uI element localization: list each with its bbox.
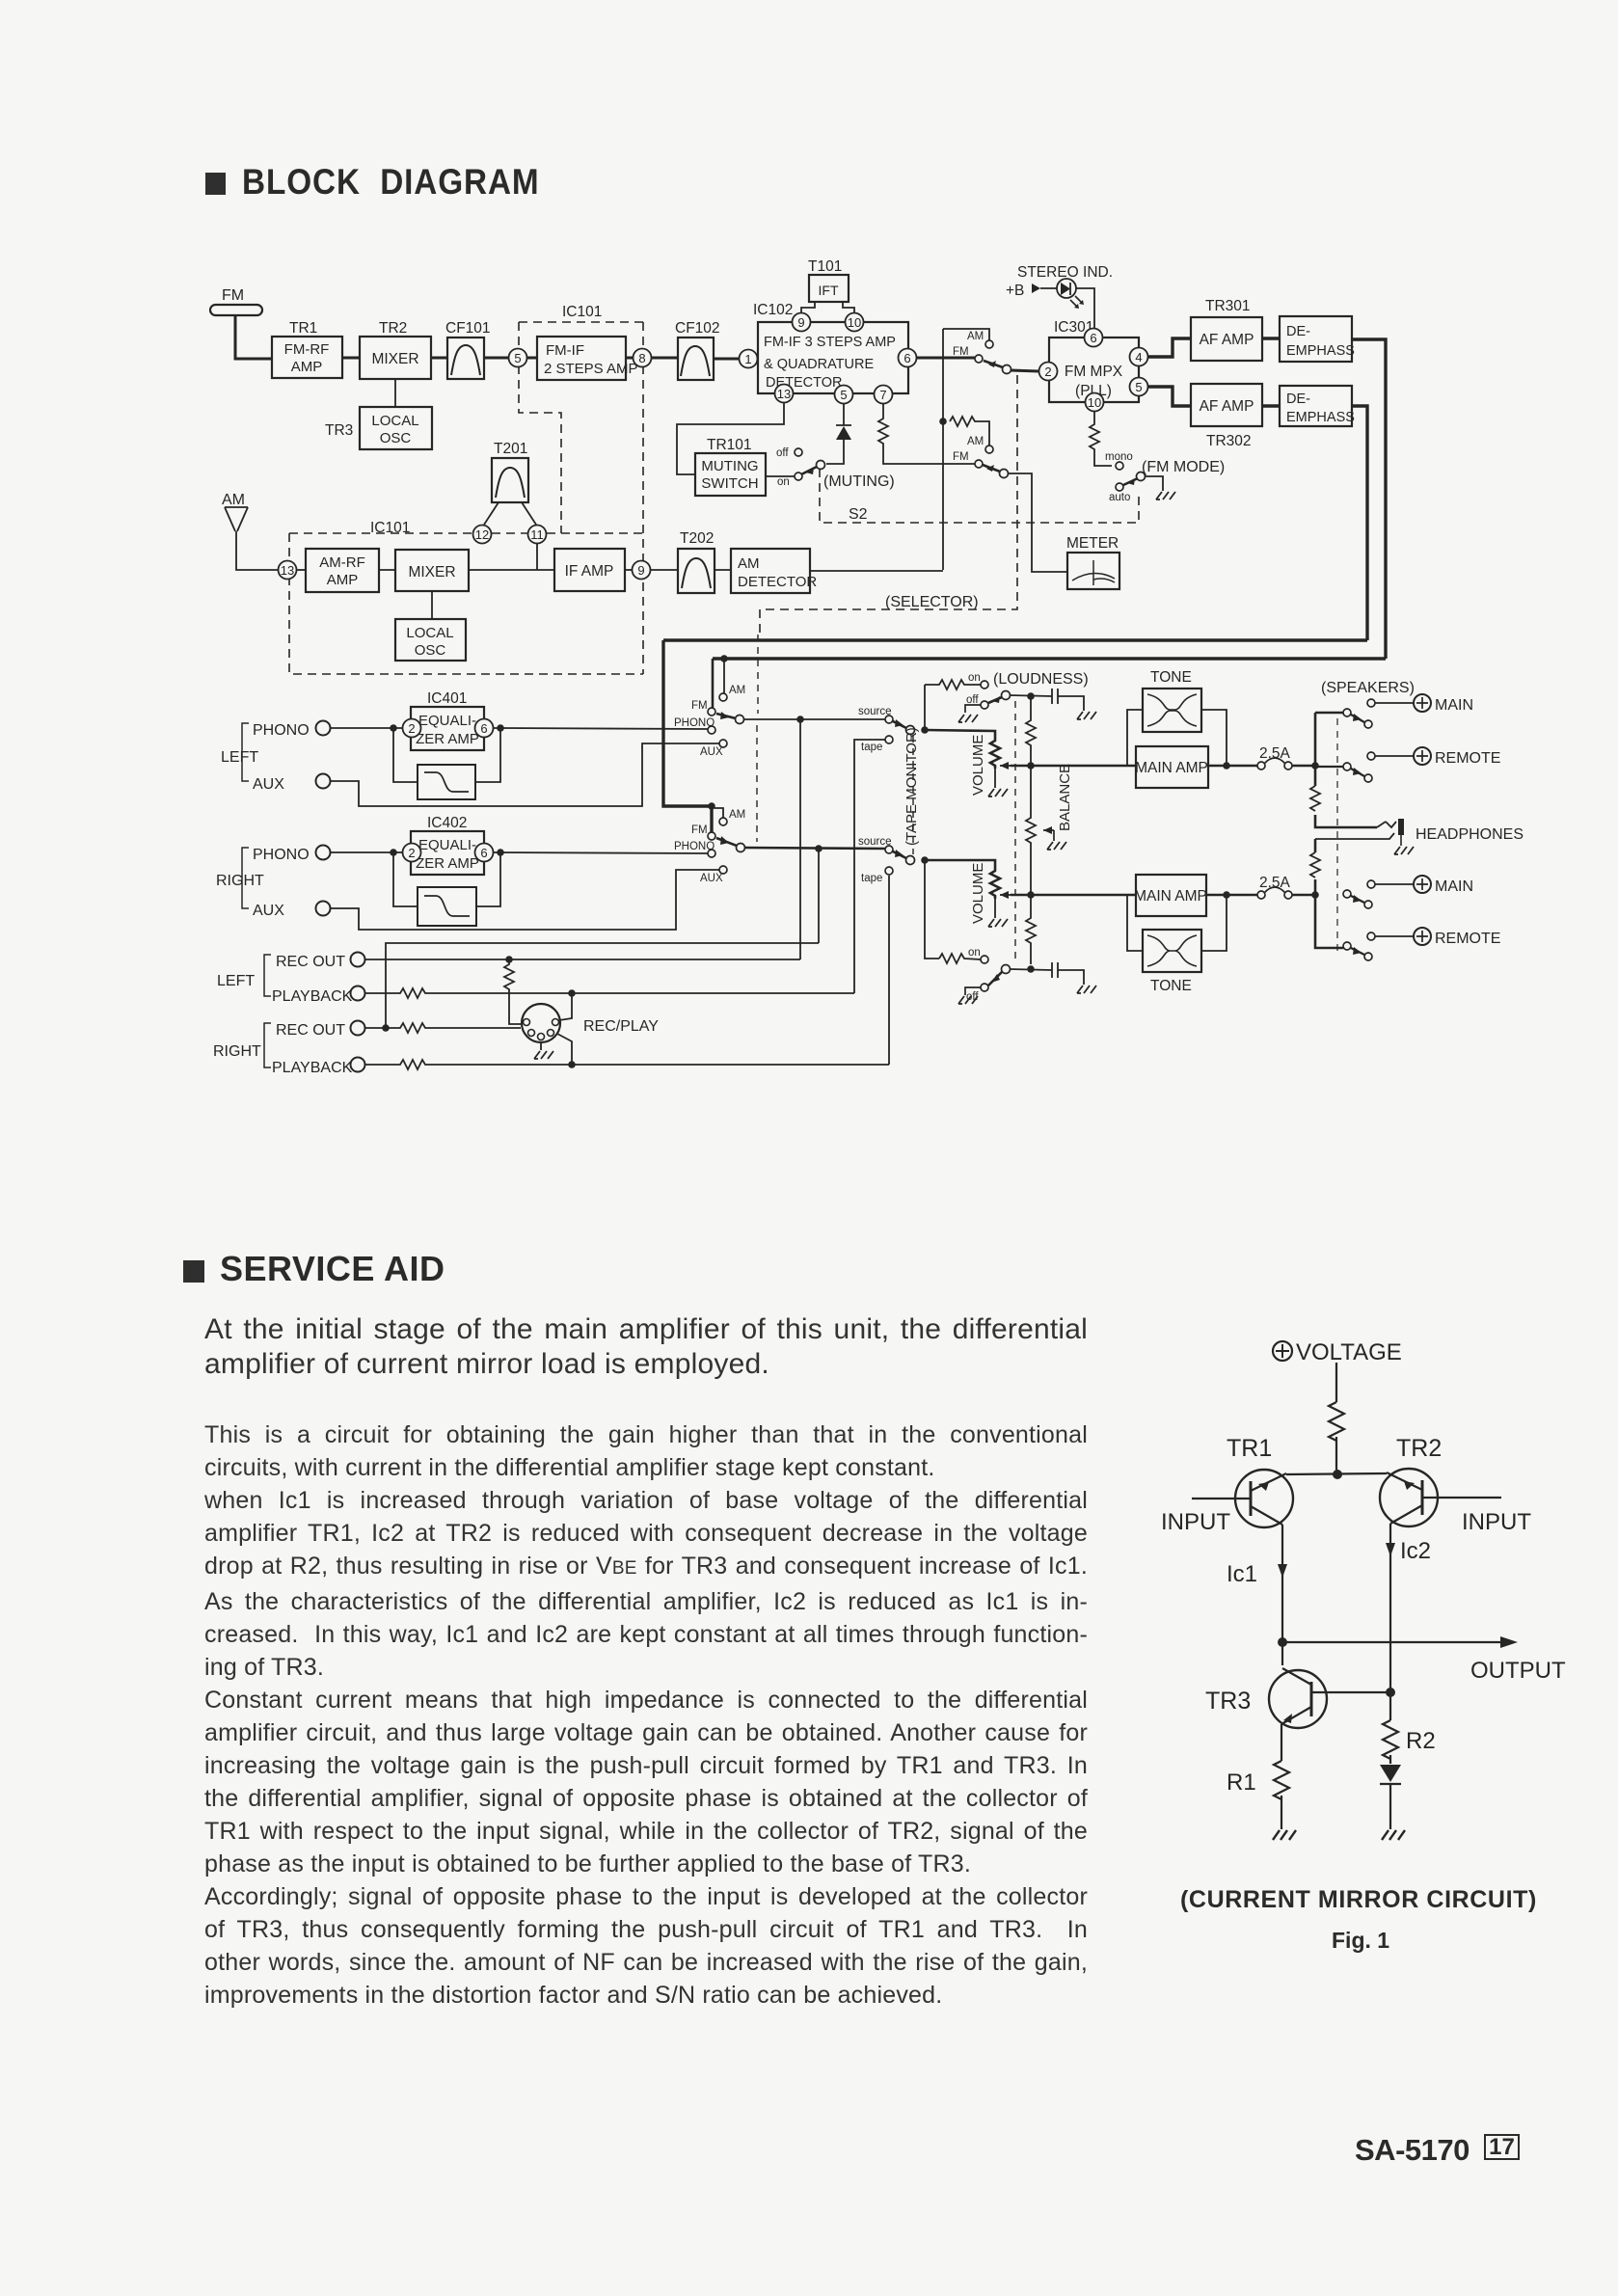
mixer MIXER (AM) [395, 550, 469, 591]
pin 8 [634, 349, 652, 367]
svg-text:2.5A: 2.5A [1259, 745, 1291, 762]
wire IC402 out to selector [494, 852, 708, 853]
switch tape monitor R pole [906, 856, 915, 865]
svg-text:FM-IF: FM-IF [546, 342, 584, 359]
svg-text:OSC: OSC [380, 430, 412, 446]
junction [720, 655, 728, 662]
amplifier IF AMP [554, 549, 625, 591]
terminal PHONO L [316, 721, 331, 736]
filter TONE L [1143, 689, 1201, 732]
wire [431, 591, 433, 619]
svg-text:AM: AM [967, 331, 984, 342]
capacitor (loudness L) [1052, 689, 1084, 711]
wire [715, 569, 731, 571]
svg-text:CF102: CF102 [675, 320, 720, 337]
pin 13 (AM in) [279, 561, 297, 580]
terminal PLAYBACK R [351, 1058, 365, 1072]
switch selector L AUX contact [719, 740, 727, 747]
terminal PHONO R [316, 846, 331, 860]
wire [766, 475, 795, 477]
pin 4 [1130, 348, 1148, 366]
resistor (headphone R) [1310, 852, 1320, 878]
wire bus drop left [663, 640, 712, 832]
wire pole R to cap [1010, 969, 1052, 970]
dashed link selector poles [757, 635, 758, 842]
svg-text:REC OUT: REC OUT [276, 954, 345, 970]
wire AM det output [810, 570, 943, 572]
svg-text:auto: auto [1109, 492, 1130, 503]
svg-text:R2: R2 [1406, 1728, 1436, 1754]
svg-text:TR1: TR1 [1227, 1435, 1272, 1462]
svg-text:10: 10 [1088, 395, 1101, 410]
wire equalizer bypass R [393, 852, 500, 906]
amplifier TR302 AF AMP [1191, 384, 1262, 426]
wire PLAYBACK L line with resistor [364, 988, 854, 998]
svg-text:TR2: TR2 [379, 320, 407, 337]
wire rec out R riser [386, 849, 819, 1028]
svg-text:IC102: IC102 [753, 302, 793, 318]
junction [1223, 762, 1230, 770]
svg-text:5: 5 [1135, 380, 1142, 394]
switch selector R pole [737, 844, 745, 852]
switch loudness L pole [1002, 691, 1011, 700]
resistor (AM meter feed) [950, 417, 989, 446]
svg-text:DETECTOR: DETECTOR [738, 574, 817, 590]
pin 6 (IC301) [1085, 329, 1103, 347]
svg-text:5: 5 [840, 388, 847, 402]
wire TR3 emitter [1281, 1724, 1282, 1829]
junction [382, 1024, 390, 1032]
wire [379, 569, 395, 571]
svg-text:6: 6 [480, 846, 487, 860]
junction [796, 716, 804, 723]
filter DE-EMPHASS (upper) [1280, 316, 1355, 362]
wire AUX L to selector [331, 743, 719, 806]
svg-text:OSC: OSC [415, 642, 446, 659]
dashed link tape monitor poles [912, 736, 914, 854]
wire pin11 to IF amp input [536, 544, 538, 570]
svg-text:MAIN AMP: MAIN AMP [1134, 888, 1207, 905]
ground [1382, 1830, 1405, 1840]
svg-text:EMPHASS: EMPHASS [1286, 343, 1355, 359]
resistor (pin7) [878, 403, 975, 464]
svg-text:FM: FM [691, 824, 708, 836]
mixer TR2 MIXER [360, 337, 431, 379]
wire [394, 379, 396, 407]
svg-text:AM: AM [729, 685, 745, 696]
svg-text:MIXER: MIXER [408, 564, 455, 581]
terminal AUX L [316, 774, 331, 789]
switch S2a pole [1003, 365, 1011, 374]
wire pin4 to AF AMP [1148, 338, 1191, 357]
wire [651, 569, 678, 571]
svg-text:AF AMP: AF AMP [1200, 398, 1254, 415]
ground [1077, 712, 1096, 719]
ground [534, 1051, 553, 1059]
wire mixer to IF AMP [469, 569, 554, 571]
wire pole to pin2 [1011, 370, 1038, 371]
junction [921, 856, 929, 864]
svg-text:4: 4 [1135, 350, 1142, 365]
switch muting arm [801, 467, 817, 474]
pin 12 [473, 526, 492, 544]
wire AM contact R [715, 808, 723, 818]
svg-text:AMP: AMP [327, 572, 359, 588]
svg-text:TR2: TR2 [1396, 1435, 1442, 1462]
svg-text:IC402: IC402 [427, 815, 467, 831]
switch S2a arm [984, 361, 1003, 367]
junction [1027, 762, 1035, 770]
pin 1 [740, 350, 758, 368]
svg-text:S2: S2 [849, 506, 868, 523]
svg-text:T202: T202 [680, 530, 714, 547]
svg-text:FM: FM [953, 451, 969, 463]
wire [342, 357, 360, 360]
svg-text:VOLUME: VOLUME [970, 735, 986, 796]
svg-text:AM-RF: AM-RF [319, 554, 365, 571]
IC301 FM MPX (PLL) [1049, 338, 1139, 402]
switch loudness R on contact [981, 956, 988, 963]
filter CF101 [447, 338, 484, 379]
wire DE-EMPHASS lower to bus [1352, 406, 1367, 640]
junction [568, 989, 576, 997]
wire main line L [1011, 765, 1136, 768]
connector REC/PLAY DIN [522, 1004, 560, 1042]
wire pot wiper L [1000, 765, 1011, 767]
svg-text:2.5A: 2.5A [1259, 875, 1291, 891]
wire pin13 to muting switch [677, 403, 784, 474]
SELECTOR dashed boundary [760, 375, 1017, 635]
switch selector R AM contact [719, 818, 727, 825]
ground [1273, 1830, 1296, 1840]
svg-text:MUTING: MUTING [701, 458, 758, 474]
svg-text:TR101: TR101 [707, 437, 752, 453]
resistor R1 [1274, 1761, 1289, 1799]
switch FM MODE arm [1123, 478, 1138, 485]
svg-text:METER: METER [1066, 535, 1119, 552]
wire DIN right-top [559, 993, 572, 1020]
amplifier IC401 EQUALIZER AMP [411, 707, 484, 750]
connector HEADPHONES jack [1315, 822, 1396, 839]
switch tape monitor R arm [893, 851, 906, 858]
wire audio bus lower [713, 657, 1386, 660]
svg-text:on: on [968, 672, 981, 684]
wire off R to ground [965, 987, 981, 995]
wire bus drop to FM contact [712, 659, 715, 708]
svg-text:REC/PLAY: REC/PLAY [583, 1018, 659, 1035]
junction [1311, 762, 1319, 770]
svg-text:T101: T101 [808, 258, 842, 275]
wire bracket [264, 955, 271, 996]
svg-text:AMP: AMP [291, 359, 323, 375]
diode (current mirror) [1380, 1765, 1401, 1782]
svg-text:5: 5 [514, 351, 521, 365]
detector AM DETECTOR [731, 549, 817, 593]
svg-text:EQUALI-: EQUALI- [418, 837, 476, 853]
svg-text:on: on [777, 476, 790, 488]
filter DE-EMPHASS (lower) [1280, 386, 1355, 426]
wire input bracket right [242, 848, 249, 908]
svg-text:TR1: TR1 [289, 320, 317, 337]
wire T201 leads [484, 502, 536, 525]
switch muting off contact [795, 448, 802, 456]
svg-text:(FM MODE): (FM MODE) [1142, 459, 1225, 475]
wire AM line vertical [943, 329, 989, 570]
ground [958, 715, 978, 722]
svg-text:PLAYBACK: PLAYBACK [272, 1060, 353, 1076]
svg-text:FM: FM [953, 346, 969, 358]
pin 2 [1039, 363, 1058, 381]
switch tape monitor L pole [906, 726, 915, 735]
svg-text:EMPHASS: EMPHASS [1286, 410, 1355, 425]
terminal REC OUT R [351, 1021, 365, 1036]
wire phono L to IC401 [331, 727, 402, 729]
filter CF102 [678, 338, 714, 380]
resistor (volume chain lower) [1026, 911, 1036, 964]
wire equalizer bypass L [393, 728, 500, 782]
svg-text:INPUT: INPUT [1161, 1509, 1230, 1535]
ground [1077, 986, 1096, 993]
svg-text:PHONO: PHONO [674, 717, 715, 729]
switch loudness L off contact [981, 701, 988, 709]
wire fuse R to speakers [1292, 894, 1315, 897]
junction [390, 724, 397, 732]
pin 5 [509, 349, 527, 367]
svg-text:RIGHT: RIGHT [216, 873, 264, 889]
svg-text:9: 9 [797, 315, 804, 330]
switch loudness L arm [988, 697, 1002, 703]
wire meter feed [1008, 473, 1067, 572]
svg-text:1: 1 [744, 352, 751, 366]
svg-text:FM: FM [222, 287, 244, 304]
switch S2b FM contact [975, 460, 983, 468]
junction [1223, 891, 1230, 899]
switch tape monitor L tape contact [885, 736, 893, 743]
amplifier TR301 AF AMP [1191, 317, 1262, 361]
ground [1394, 847, 1414, 854]
wire TONE R loop [1127, 895, 1227, 951]
switch loudness L on contact [981, 681, 988, 689]
svg-text:AM: AM [738, 555, 760, 572]
svg-text:REMOTE: REMOTE [1435, 931, 1500, 947]
amplifier AM-RF AMP [306, 549, 379, 592]
svg-text:ZER AMP: ZER AMP [416, 855, 479, 872]
switch selector L arm [716, 714, 736, 718]
svg-text:6: 6 [480, 721, 487, 736]
switch speaker L main [1343, 709, 1351, 716]
terminal MAIN R [1367, 880, 1375, 888]
wire pin5 to AF AMP [1148, 387, 1191, 406]
junction [1027, 692, 1035, 700]
svg-text:BALANCE: BALANCE [1057, 764, 1073, 831]
resistor (volume chain upper L) [1026, 696, 1036, 766]
wire AM contact drop [723, 659, 725, 693]
svg-text:IFT: IFT [819, 283, 839, 298]
dashed link loudness switches [1014, 701, 1016, 963]
pin 9 (AM) [633, 561, 651, 580]
svg-text:TR301: TR301 [1205, 298, 1251, 314]
junction [505, 956, 513, 963]
junction [708, 802, 715, 810]
wire main amp R out [1206, 894, 1257, 897]
wire collector bus [1286, 1473, 1387, 1474]
wire [1262, 337, 1280, 339]
switch speaker R remote [1343, 942, 1351, 950]
wire speaker L remote stub [1315, 766, 1343, 768]
body paragraph 1 [204, 1312, 1088, 1381]
pin 7 [875, 386, 893, 404]
svg-text:RIGHT: RIGHT [213, 1043, 261, 1060]
svg-text:(MUTING): (MUTING) [823, 473, 895, 490]
amplifier MAIN AMP L [1135, 746, 1208, 788]
filter RIAA curve R [418, 887, 476, 926]
svg-text:INPUT: INPUT [1462, 1509, 1531, 1535]
wire selector R pole to tape monitor [744, 848, 885, 849]
switch selector L AM contact [719, 693, 727, 701]
ground [1047, 842, 1066, 850]
amplifier FM-IF 2 STEPS AMP [537, 337, 638, 380]
wire tape L [854, 740, 885, 993]
svg-text:TR3: TR3 [325, 422, 353, 439]
wire TONE L loop [1127, 710, 1227, 766]
svg-text:PHONO: PHONO [253, 722, 310, 739]
wire [297, 569, 306, 571]
wire DE-EMPHASS upper to bus [1352, 339, 1386, 659]
junction [1333, 1470, 1342, 1479]
svg-text:R1: R1 [1227, 1769, 1256, 1796]
wire AUX R to selector [331, 870, 719, 930]
resistor (rec/play) [504, 959, 527, 1024]
switch selector R AUX contact [719, 866, 727, 874]
switch selector L pole [736, 716, 744, 724]
svg-text:2 STEPS AMP: 2 STEPS AMP [544, 361, 638, 377]
filter TONE R [1143, 930, 1201, 972]
wire PLAYBACK R line with resistor [364, 1060, 889, 1069]
svg-text:T201: T201 [494, 441, 527, 457]
wire fuse L to speakers [1292, 765, 1315, 768]
junction [1278, 1637, 1287, 1647]
svg-text:PHONO: PHONO [253, 847, 310, 863]
switch S2b AM contact [985, 446, 993, 453]
svg-text:LOCAL: LOCAL [371, 413, 418, 429]
svg-text:FM: FM [691, 700, 708, 712]
wire input bracket left [242, 723, 249, 781]
switch S2a FM contact [975, 355, 983, 363]
switch FM MODE auto contact [1116, 483, 1123, 491]
wire audio bus upper [663, 638, 1367, 641]
capacitor (loudness R) [1052, 962, 1084, 985]
dashed link speaker switches [1336, 718, 1338, 953]
terminal REMOTE R [1367, 932, 1375, 940]
transformer T101 IFT [809, 275, 849, 302]
svg-text:9: 9 [637, 563, 644, 578]
wire [625, 569, 632, 571]
wire [431, 357, 447, 360]
pin 10 [846, 313, 864, 332]
svg-text:source: source [858, 836, 892, 848]
svg-text:& QUADRATURE: & QUADRATURE [764, 357, 874, 372]
ground [1156, 492, 1175, 500]
svg-text:(LOUDNESS): (LOUDNESS) [993, 671, 1089, 688]
svg-text:2: 2 [408, 846, 415, 860]
S2 dashed boundary [820, 469, 1139, 523]
pin 5 (IC301) [1130, 378, 1148, 396]
switch TR101 MUTING SWITCH [695, 453, 766, 496]
wire [652, 357, 678, 360]
switch FM MODE pole [1137, 473, 1146, 481]
resistor (headphone L) [1310, 786, 1320, 811]
wire selector L pole to tape monitor [743, 718, 885, 720]
switch selector R arm [716, 838, 737, 846]
svg-text:tape: tape [861, 742, 882, 753]
switch loudness R off contact [981, 984, 988, 991]
svg-text:2: 2 [408, 721, 415, 736]
svg-text:11: 11 [530, 527, 544, 542]
transformer T202 [678, 549, 715, 593]
wire R2 branch [1389, 1692, 1391, 1764]
wire pot R ground [994, 899, 996, 918]
svg-text:10: 10 [848, 315, 861, 330]
svg-text:AUX: AUX [700, 873, 723, 884]
svg-text:TR3: TR3 [1205, 1688, 1251, 1715]
switch selector L PHONO contact [708, 726, 715, 734]
junction [921, 726, 929, 734]
junction [1386, 1688, 1395, 1697]
svg-text:TONE: TONE [1150, 978, 1192, 994]
terminal +VOLTAGE [1273, 1341, 1292, 1361]
switch S2a AM contact [985, 340, 993, 348]
wire [714, 358, 739, 361]
wire [527, 357, 537, 360]
svg-text:HEADPHONES: HEADPHONES [1416, 826, 1524, 843]
wire DIN ground [540, 1042, 542, 1050]
svg-text:(SPEAKERS): (SPEAKERS) [1321, 680, 1415, 696]
svg-text:mono: mono [1105, 451, 1133, 463]
svg-text:REC OUT: REC OUT [276, 1022, 345, 1039]
oscillator LOCAL OSC (AM) [395, 619, 466, 661]
switch FM MODE mono contact [1116, 462, 1123, 470]
svg-text:ZER AMP: ZER AMP [416, 731, 479, 747]
section header: BLOCK DIAGRAM [205, 173, 226, 195]
svg-text:LEFT: LEFT [217, 973, 255, 989]
transformer T201 [492, 458, 528, 502]
svg-text:TONE: TONE [1150, 669, 1192, 686]
switch tape monitor L arm [893, 721, 906, 728]
wire pot wiper R [1000, 894, 1011, 896]
body paragraph 2 [204, 1418, 1088, 2012]
wire REC OUT R line with resistor [364, 1023, 521, 1033]
wire [1262, 404, 1280, 407]
svg-text:PHONO: PHONO [674, 841, 715, 852]
svg-text:Ic2: Ic2 [1400, 1538, 1431, 1564]
junction [815, 845, 822, 852]
svg-text:AM: AM [967, 436, 984, 447]
switch tape monitor L source contact [885, 716, 893, 723]
svg-text:EQUALI-: EQUALI- [418, 713, 476, 729]
junction [939, 418, 947, 425]
figure caption [1180, 1886, 1537, 1914]
svg-text:+B: +B [1006, 283, 1024, 299]
FM antenna [210, 305, 272, 359]
amplifier IC402 EQUALIZER AMP [411, 831, 484, 875]
svg-text:AUX: AUX [700, 746, 723, 758]
svg-text:FM-RF: FM-RF [284, 341, 330, 358]
wire jack ground [1400, 835, 1402, 846]
svg-text:6: 6 [1090, 331, 1096, 345]
svg-text:Ic1: Ic1 [1227, 1561, 1257, 1587]
IC101 dashed boundary (AM section) [289, 533, 643, 674]
amplifier MAIN AMP R [1134, 875, 1207, 916]
